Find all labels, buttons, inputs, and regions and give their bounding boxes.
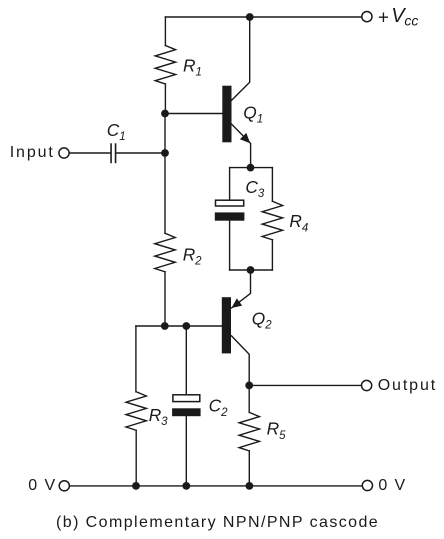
svg-text:Output: Output bbox=[378, 377, 437, 394]
label 0V right bbox=[378, 477, 406, 494]
wire C3 to block bottom bar bbox=[229, 221, 231, 270]
label +Vcc bbox=[378, 5, 419, 29]
svg-text:0 V: 0 V bbox=[378, 477, 406, 494]
wire R4 to block bottom bar bbox=[271, 240, 273, 270]
node R2/base row junction bbox=[161, 322, 169, 330]
resistor R4 bbox=[262, 201, 282, 239]
wire rail down to R1 bbox=[164, 17, 166, 46]
label Q2 bbox=[252, 308, 272, 331]
wire input terminal to C1 bbox=[69, 152, 110, 154]
wire output node down to R5 bbox=[248, 385, 250, 412]
label R5 bbox=[267, 419, 286, 442]
capacitor C1 bbox=[111, 144, 116, 162]
node output junction bbox=[245, 382, 253, 390]
wire lower base row bbox=[136, 325, 222, 327]
wire R1 to base node bbox=[164, 84, 166, 114]
svg-text:Q1: Q1 bbox=[243, 102, 263, 125]
wire top bar to R4 bbox=[271, 168, 273, 202]
svg-text:R2: R2 bbox=[183, 244, 202, 267]
wire output bbox=[249, 384, 361, 386]
wire C1 to input node bbox=[116, 152, 165, 154]
svg-text:Input: Input bbox=[10, 144, 55, 161]
wire bottom rail bbox=[69, 485, 361, 487]
label C2 bbox=[209, 396, 228, 419]
wire R2 to lower base row bbox=[164, 272, 166, 326]
terminal 0V right bbox=[362, 480, 372, 490]
label Q1 bbox=[243, 102, 263, 125]
terminal +Vcc bbox=[362, 12, 372, 22]
wire input node down to R2 bbox=[164, 153, 166, 233]
label C3 bbox=[245, 177, 264, 200]
svg-text:C3: C3 bbox=[245, 177, 264, 200]
svg-text:R5: R5 bbox=[267, 419, 286, 442]
wire base of Q1 bbox=[165, 113, 222, 115]
label R1 bbox=[183, 55, 202, 78]
node R5/rail junction bbox=[246, 482, 254, 490]
wire R3 to bottom rail bbox=[135, 430, 137, 486]
label Input bbox=[10, 144, 55, 161]
wire C2 node down to C2 bbox=[185, 326, 187, 394]
transistor Q2 bbox=[222, 270, 251, 385]
wire top bar to C3 bbox=[229, 168, 231, 200]
node block bottom junction bbox=[247, 266, 255, 274]
label R2 bbox=[183, 244, 202, 267]
node Q1 base junction bbox=[161, 110, 169, 118]
terminal 0V left bbox=[59, 481, 69, 491]
node rail/collector junction bbox=[246, 13, 254, 21]
label R4 bbox=[289, 211, 308, 234]
resistor R1 bbox=[155, 46, 175, 85]
resistor R2 bbox=[155, 233, 175, 272]
node C2/rail junction bbox=[182, 482, 190, 490]
wire base node down to input node bbox=[164, 114, 166, 154]
node R3/rail junction bbox=[132, 482, 140, 490]
wire base row corner down to R3 bbox=[135, 326, 137, 392]
terminal Output bbox=[362, 380, 372, 390]
svg-text:+: + bbox=[378, 7, 389, 28]
svg-text:(b) Complementary NPN/PNP casc: (b) Complementary NPN/PNP cascode bbox=[56, 514, 379, 531]
resistor R5 bbox=[239, 412, 259, 451]
label 0V left bbox=[28, 477, 56, 494]
wire top supply rail bbox=[165, 16, 361, 18]
svg-text:C2: C2 bbox=[209, 396, 228, 419]
wire C2 to bottom rail bbox=[185, 416, 187, 486]
transistor Q1 bbox=[222, 17, 250, 168]
node Q1 emitter / block top junction bbox=[247, 164, 255, 172]
resistor R3 bbox=[126, 392, 146, 431]
svg-text:C1: C1 bbox=[107, 120, 126, 143]
node C2 branch junction bbox=[182, 322, 190, 330]
label C1 bbox=[107, 120, 126, 143]
svg-text:Q2: Q2 bbox=[252, 308, 272, 331]
label Output bbox=[378, 377, 437, 394]
wire block top bar bbox=[230, 167, 273, 169]
svg-text:R3: R3 bbox=[149, 405, 168, 428]
svg-text:0 V: 0 V bbox=[28, 477, 56, 494]
svg-text:cc: cc bbox=[404, 13, 418, 29]
label R3 bbox=[149, 405, 168, 428]
svg-text:R1: R1 bbox=[183, 55, 202, 78]
capacitor C3 bbox=[215, 200, 245, 221]
capacitor C2 bbox=[172, 395, 201, 416]
wire block bottom bar bbox=[230, 269, 273, 271]
svg-text:R4: R4 bbox=[289, 211, 308, 234]
terminal Input bbox=[59, 148, 69, 158]
caption bbox=[56, 514, 379, 531]
node input junction bbox=[161, 149, 169, 157]
wire R5 to bottom rail bbox=[248, 451, 250, 486]
